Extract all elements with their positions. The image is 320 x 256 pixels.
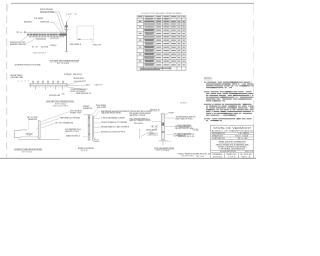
- svg-text:COPPERWELD: COPPERWELD: [174, 136, 187, 138]
- D6 dim line: [139, 128, 158, 138]
- D3 ground line: [18, 139, 60, 141]
- svg-text:E-101-B: E-101-B: [241, 154, 254, 156]
- svg-text:THROUGH BOLT WITH LOCKNUT: THROUGH BOLT WITH LOCKNUT: [130, 111, 152, 113]
- svg-text:WITH LOCKNUTS: WITH LOCKNUTS: [71, 91, 87, 93]
- D2 hatch below rail: [31, 86, 66, 88]
- D1 detail box: [77, 26, 93, 40]
- svg-text:EXISTING POLE TOP: EXISTING POLE TOP: [10, 42, 26, 44]
- D3 pole stub: [38, 121, 40, 138]
- D2 insulator pins: [32, 81, 64, 84]
- svg-text:MOLDING FULL LENGTH OF POLE: MOLDING FULL LENGTH OF POLE: [101, 131, 125, 133]
- D2 ground dashes: [17, 80, 30, 82]
- D1 leader wires: [21, 12, 71, 44]
- D6 lower blob: [162, 131, 164, 133]
- D1 conductor wire: [25, 31, 67, 33]
- svg-text:EXISTING: EXISTING: [11, 75, 24, 77]
- table cell text: [138, 16, 185, 70]
- svg-text:GROUND LINE: GROUND LINE: [49, 95, 61, 97]
- svg-text:2 REQD: 2 REQD: [64, 74, 73, 76]
- svg-text:TYP: TYP: [192, 129, 198, 131]
- border tick top-left: [6, 4, 8, 11]
- D3 leader dashed: [27, 121, 29, 132]
- svg-text:LENGTH OF GUY: LENGTH OF GUY: [65, 131, 79, 133]
- svg-text:PROTECTOR 8 FT MIN: PROTECTOR 8 FT MIN: [175, 128, 193, 130]
- D6 boxed note: [148, 133, 158, 136]
- D1 crossarm band: [27, 33, 67, 37]
- D5 bracket: [84, 114, 92, 116]
- svg-text:SEE NOTE 2: SEE NOTE 2: [66, 135, 80, 137]
- svg-text:TOP: TOP: [168, 112, 174, 114]
- D6 leader left: [152, 120, 161, 122]
- D5 pole top cap: [88, 114, 91, 116]
- D1 box corner mark: [78, 39, 80, 40]
- svg-text:CONDUCTOR: CONDUCTOR: [40, 22, 50, 24]
- D1 hardware text below band: [36, 38, 46, 41]
- D5 ground dashes: [83, 136, 88, 138]
- svg-text:CONDUIT: CONDUIT: [83, 106, 90, 108]
- svg-text:1-1/2": 1-1/2": [66, 14, 72, 16]
- border bottom: [0, 157, 256, 159]
- svg-text:7'-0": 7'-0": [26, 135, 32, 137]
- border top: [11, 2, 254, 4]
- svg-text:STATE OF VERMONT: STATE OF VERMONT: [213, 126, 251, 130]
- title block frame: [211, 125, 254, 158]
- title block data rows: [212, 132, 253, 158]
- D6 ground: [159, 139, 168, 141]
- svg-text:DOCKET 5503: DOCKET 5503: [182, 156, 194, 158]
- D6 leader B: [165, 126, 174, 128]
- svg-text:POINT TYP: POINT TYP: [70, 112, 81, 114]
- svg-text:CL POLE: CL POLE: [41, 47, 49, 49]
- svg-text:CHECKED BY: CHECKED BY: [212, 138, 226, 140]
- svg-text:SEE DWG 2: SEE DWG 2: [180, 102, 187, 104]
- svg-text:R.L.B.: R.L.B.: [238, 138, 249, 140]
- svg-text:RURAL ELECTRIC DISTRIBUTION: RURAL ELECTRIC DISTRIBUTION: [219, 141, 247, 144]
- svg-text:5/8" GUY ROD: 5/8" GUY ROD: [27, 117, 38, 119]
- svg-text:GROUND LINE: GROUND LINE: [11, 77, 24, 79]
- svg-text:GROUND ROD 5/8" X 8FT: GROUND ROD 5/8" X 8FT: [174, 134, 192, 136]
- svg-text:1 OF 2: 1 OF 2: [228, 156, 236, 158]
- svg-text:NO. 12: NO. 12: [245, 151, 253, 153]
- svg-text:GROUND WIRE MOLD: GROUND WIRE MOLD: [175, 126, 193, 128]
- svg-text:TIE WIRE: TIE WIRE: [34, 18, 43, 20]
- D5 pole: [88, 115, 90, 141]
- svg-text:SEE NOTE 2: SEE NOTE 2: [73, 74, 82, 76]
- svg-text:CONDUCTOR SAG AND TENSION TABL: CONDUCTOR SAG AND TENSION TABLE: [141, 12, 183, 15]
- D6 leader A: [165, 117, 175, 119]
- border right: [253, 4, 255, 125]
- svg-text:2 BOLT TYP: 2 BOLT TYP: [93, 44, 102, 46]
- svg-text:FULL LENGTH: FULL LENGTH: [134, 123, 143, 125]
- D3 dim line: [21, 136, 38, 138]
- svg-text:CROSSARM BRACE: CROSSARM BRACE: [73, 77, 85, 80]
- D5 conduit riser: [92, 116, 99, 142]
- D6 equipment blob: [162, 123, 165, 126]
- D6 ground rod: [162, 140, 164, 146]
- table: conductor sag and tension: [137, 16, 186, 70]
- D5 leader wires: [94, 118, 100, 132]
- svg-text:GL: GL: [150, 133, 154, 135]
- svg-text:SHEET NO.: SHEET NO.: [227, 154, 238, 156]
- D5 leaders top: [93, 109, 100, 118]
- D4 anchor plate: [14, 130, 27, 138]
- border left: [6, 4, 8, 158]
- D6 pole: [162, 114, 165, 140]
- svg-text:2 REQD: 2 REQD: [50, 45, 58, 47]
- D1 pole-top hardware: [65, 25, 68, 27]
- D2 crossarm rail: [30, 83, 67, 86]
- svg-text:8"-0": 8"-0": [32, 47, 39, 49]
- svg-text:SEE NOTE 3: SEE NOTE 3: [33, 52, 46, 54]
- svg-text:DESIGNED BY: DESIGNED BY: [212, 133, 226, 135]
- svg-text:N.T.S.: N.T.S.: [81, 150, 90, 152]
- svg-text:AGENCY OF TRANSPORTATION: AGENCY OF TRANSPORTATION: [212, 130, 254, 133]
- svg-text:TYP: TYP: [74, 14, 78, 16]
- D1 left wire stubs: [17, 31, 20, 34]
- D2 hanger bolts: [36, 86, 63, 90]
- svg-text:RISER POLE DETAIL: RISER POLE DETAIL: [78, 147, 95, 150]
- D1 pole: [66, 22, 68, 52]
- D6 labels C: [166, 134, 173, 136]
- svg-text:POLE GROUND WIRE NO. 6: POLE GROUND WIRE NO. 6: [130, 118, 150, 120]
- D2 leader wires: [66, 80, 88, 89]
- svg-text:FOR RURAL DISTRIBUTION: FOR RURAL DISTRIBUTION: [220, 147, 246, 150]
- svg-text:POLE: POLE: [86, 85, 90, 87]
- notes paragraphs: [204, 82, 254, 122]
